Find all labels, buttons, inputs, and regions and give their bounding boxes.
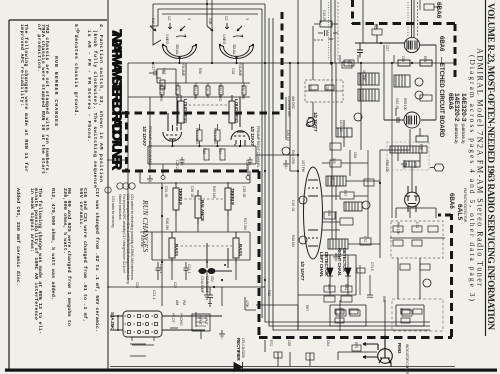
svg-text:C17 was changed from .02 to .1: C17 was changed from .02 to .1 mf, 50V c…: [94, 188, 100, 332]
svg-text:14E320-2 (14E310-2): 14E320-2 (14E310-2): [453, 93, 460, 144]
svg-text:RECTIFIER: RECTIFIER: [236, 338, 241, 361]
svg-text:FM RATIO DETECTOR: FM RATIO DETECTOR: [463, 188, 467, 223]
tiny value labels: [159, 24, 467, 348]
tube V6 6AL5: [405, 186, 420, 212]
svg-text:LOUDNESS: LOUDNESS: [234, 99, 239, 123]
gang dashed link treble: [180, 198, 224, 200]
grid cage sides: [148, 146, 256, 164]
svg-text:C17: C17: [151, 64, 155, 70]
svg-text:C22: C22: [173, 282, 177, 288]
wire left drop 2: [150, 9, 158, 26]
ratio detector dashed net: [391, 221, 443, 258]
svg-text:L6 OSC: L6 OSC: [339, 120, 343, 132]
svg-text:S1A: S1A: [151, 18, 155, 25]
svg-text:INDICATOR CONTROL: INDICATOR CONTROL: [405, 344, 409, 374]
wire audio bus H83: [157, 82, 250, 84]
wire vertical x331: [330, 0, 332, 65]
wire long H155: [256, 154, 298, 156]
board outline fm corner up: [351, 0, 354, 24]
svg-text:Added C91, 330 mmf ceramic dis: Added C91, 330 mmf ceramic disc.: [15, 188, 21, 286]
svg-text:TREBLE: TREBLE: [178, 188, 183, 205]
diode right chan detector: [345, 264, 351, 284]
resistor boxes right top: [274, 29, 438, 360]
svg-text:C28: C28: [231, 68, 235, 74]
circled terminals: [282, 78, 431, 287]
svg-text:improved AFC reliability:: improved AFC reliability:: [19, 24, 25, 106]
wire audio bus H97: [128, 96, 250, 98]
tube V5 6BA6 mid: [384, 112, 436, 128]
board outline audio top: [122, 170, 259, 173]
svg-text:DETECTOR: DETECTOR: [324, 252, 329, 276]
page frame: line left of title bar: [107, 0, 109, 370]
am det inner bits: [335, 309, 422, 323]
svg-text:R57: R57: [343, 190, 347, 196]
svg-text:R6: R6: [161, 70, 165, 74]
board outline short top: [122, 112, 281, 115]
svg-text:C56: C56: [325, 85, 329, 91]
svg-text:R31 470K: R31 470K: [193, 85, 197, 100]
svg-text:105: 105: [332, 158, 336, 164]
svg-text:BALANCE: BALANCE: [200, 200, 205, 221]
cap C62 at tube2: [392, 108, 428, 142]
svg-text:3: 3: [245, 18, 249, 20]
svg-text:R15 50K: R15 50K: [140, 235, 144, 248]
light dashed board inner: [392, 299, 443, 331]
svg-text:PREAMP RIGHT CHANNEL: PREAMP RIGHT CHANNEL: [256, 126, 260, 168]
coil L3: [344, 202, 362, 211]
svg-text:C60: C60: [401, 56, 405, 62]
svg-text:L8: L8: [331, 176, 335, 180]
heavy dashed etched board outlines: [122, 0, 455, 338]
hexagon terminal H: [430, 164, 444, 171]
svg-text:C34 .05: C34 .05: [164, 186, 168, 197]
svg-text:C72: C72: [363, 236, 367, 242]
svg-text:(knob fully clockwise). The sw: (knob fully clockwise). The switching se…: [92, 30, 98, 188]
wire bus vertical B3: [269, 18, 430, 326]
note run 11: [19, 24, 29, 172]
contact labels top: [151, 16, 249, 25]
c17 box left: [149, 69, 176, 95]
tone label row: [164, 186, 247, 230]
diode left chan detector: [327, 264, 333, 284]
svg-text:1 MEG: 1 MEG: [222, 34, 226, 45]
detector load resistors: [324, 265, 373, 302]
svg-text:5. denotes chassis ground.: 5. denotes chassis ground.: [73, 24, 79, 116]
board outline bottom: [259, 336, 452, 339]
svg-text:R67: R67: [305, 305, 309, 311]
svg-text:R44: R44: [347, 60, 351, 66]
svg-text:R55 100: R55 100: [403, 98, 407, 110]
wire center drop: [211, 0, 213, 63]
AM converter dashed module: [305, 80, 343, 102]
svg-text:R38 1MEG: R38 1MEG: [218, 85, 222, 102]
svg-text:R16 2M: R16 2M: [165, 218, 169, 230]
svg-text:AM OSC: AM OSC: [291, 96, 295, 110]
board outline fm right: [454, 24, 457, 80]
wire left drop 1: [153, 4, 161, 45]
wire long H164: [148, 163, 256, 165]
svg-text:AM: AM: [175, 300, 179, 305]
svg-text:FM: FM: [182, 300, 186, 305]
svg-text:R64 15K: R64 15K: [396, 222, 400, 235]
gang dashed link loudness: [184, 104, 229, 106]
svg-text:R40 1M: R40 1M: [212, 186, 216, 198]
svg-text:C3: C3: [224, 16, 228, 20]
title bar 7N2A FM-AM STEREO RADIO TUNER: [110, 29, 125, 171]
circled note a: [117, 183, 135, 189]
svg-text:C20: C20: [135, 282, 139, 288]
note 4 function switch: [86, 24, 104, 188]
volume pot right R2: [207, 23, 254, 63]
svg-text:C15 25: C15 25: [322, 10, 326, 21]
note run 12: [29, 188, 43, 334]
svg-text:C71: C71: [415, 222, 419, 228]
board outline jog: [438, 214, 451, 217]
svg-text:R60: R60: [327, 284, 331, 290]
svg-text:C49 .01: C49 .01: [291, 200, 295, 211]
wire vertical x335: [334, 0, 336, 63]
treble pot right: [225, 182, 231, 216]
svg-text:in weak signal areas:: in weak signal areas:: [29, 188, 35, 252]
svg-text:RUN NUMBER CHANGES: RUN NUMBER CHANGES: [53, 56, 59, 126]
tube V2 1/2 12AX7 right: [231, 97, 250, 146]
svg-text:1/2 12AT7: 1/2 12AT7: [313, 112, 318, 132]
transistor Q1 R593: [363, 335, 392, 367]
svg-text:R12, 470,000 ohms, ½ watt was: R12, 470,000 ohms, ½ watt was added.: [50, 188, 56, 300]
svg-text:LEFT CHAN.: LEFT CHAN.: [319, 252, 324, 277]
svg-text:R38 1MEG: R38 1MEG: [213, 128, 217, 145]
svg-text:(Diagram across pages 4 and 5,: (Diagram across pages 4 and 5, other dat…: [468, 55, 477, 302]
svg-text:50V ceramic.: 50V ceramic.: [78, 188, 84, 228]
svg-text:R30: R30: [198, 68, 202, 74]
svg-text:C74 5: C74 5: [370, 262, 374, 271]
loudness pot left: [174, 95, 184, 130]
svg-text:S3A 25K: S3A 25K: [110, 312, 115, 330]
svg-text:INPUT: INPUT: [204, 315, 208, 326]
junction dots extra: [152, 42, 393, 288]
svg-text:R34: R34: [218, 148, 222, 154]
svg-text:R72: R72: [269, 340, 273, 346]
svg-text:R33: R33: [202, 148, 206, 154]
svg-text:VOLUME R-23, MOST-OFTEN-NEEDED: VOLUME R-23, MOST-OFTEN-NEEDED 1963 RADI…: [485, 3, 495, 330]
middle vertical wires: [269, 0, 436, 335]
circled part note: [105, 187, 111, 193]
svg-text:of production.: of production.: [36, 24, 42, 72]
svg-text:1/2 12AX7: 1/2 12AX7: [250, 126, 255, 147]
page frame: left border line: [8, 20, 10, 370]
svg-text:R61: R61: [344, 284, 348, 290]
svg-text:6BA6: 6BA6: [447, 93, 454, 110]
wire grid line H146: [148, 145, 256, 147]
svg-text:10.7MC: 10.7MC: [362, 70, 366, 82]
resistor row under bus: [160, 83, 246, 98]
ground symbols: [147, 160, 407, 338]
board outline fm top: [352, 22, 455, 25]
svg-text:C84: C84: [326, 340, 330, 346]
svg-text:VOLUME: VOLUME: [181, 62, 185, 77]
svg-text:C40 10: C40 10: [286, 130, 290, 141]
svg-text:1 MEG: 1 MEG: [165, 34, 169, 45]
wire top bus 3: [162, 13, 258, 15]
note R6 R9 R25: [62, 188, 72, 326]
svg-text:R46 470K: R46 470K: [291, 150, 295, 165]
svg-text:BASS: BASS: [238, 244, 243, 256]
svg-text:VOLUME: VOLUME: [238, 62, 242, 77]
coil L2: [328, 239, 348, 249]
svg-text:Start of production.: Start of production.: [118, 194, 122, 221]
svg-text:470K: 470K: [245, 300, 249, 308]
resistor R31 R38 grid: [161, 124, 253, 180]
svg-text:DETECTOR: DETECTOR: [342, 248, 347, 272]
board outline left vertical: [125, 111, 128, 170]
wire bus vertical B1: [265, 4, 430, 322]
svg-text:C26 .02: C26 .02: [205, 85, 209, 96]
svg-text:220,000 ohms, ½ watt.: 220,000 ohms, ½ watt.: [62, 188, 68, 254]
svg-text:1/2 12AX7: 1/2 12AX7: [142, 126, 147, 147]
bass pot right: [233, 232, 239, 264]
svg-text:6BA6: 6BA6: [448, 193, 455, 209]
svg-text:6AL5: 6AL5: [456, 204, 463, 220]
wire vertical x298: [297, 0, 299, 330]
svg-text:3DUAL: 3DUAL: [232, 44, 236, 55]
components on line H63 right: [340, 55, 432, 66]
svg-text:14E320-3 (14E310-3): 14E320-3 (14E310-3): [460, 93, 467, 144]
svg-text:C91 added for eliminating poss: C91 added for eliminating possibility of…: [130, 194, 134, 280]
balance pot: [195, 190, 201, 224]
board outline am vertical: [281, 12, 284, 110]
shielded pair dotted: [328, 2, 330, 60]
ratio det transformer T4: [390, 146, 427, 192]
loudness pot right: [225, 95, 235, 130]
svg-text:C85: C85: [287, 340, 291, 346]
wire tone left vertical: [161, 183, 163, 306]
phono eq box: [192, 314, 210, 339]
svg-text:C36 .05: C36 .05: [190, 186, 194, 197]
svg-text:INPUT: INPUT: [198, 315, 202, 326]
coil L1: [326, 176, 346, 186]
wire bus vertical B2: [261, 9, 263, 318]
right rule line: [485, 0, 487, 336]
caps row mid: [0, 0, 1, 1]
cluster mid coils: [336, 120, 352, 147]
jack block J1: [198, 243, 232, 274]
svg-text:PILOT: PILOT: [171, 313, 175, 323]
svg-text:R75: R75: [354, 342, 358, 348]
volume pot left R1: [150, 23, 197, 63]
svg-text:C35 .05: C35 .05: [242, 186, 246, 197]
wire audio verticals: [107, 63, 455, 367]
function switch S3: [110, 311, 222, 345]
svg-text:S1B: S1B: [208, 18, 212, 25]
coil loopstick: [306, 118, 313, 127]
wires right lower: [245, 238, 445, 366]
svg-text:C33 220: C33 220: [245, 160, 249, 172]
svg-text:R12: R12: [267, 290, 271, 296]
svg-text:C66: C66: [353, 152, 357, 158]
svg-text:R36 470K: R36 470K: [241, 85, 245, 100]
svg-text:C2: C2: [167, 16, 171, 20]
svg-text:25V: 25V: [210, 276, 214, 283]
note run numbers: [36, 24, 50, 174]
board outline audio right: [258, 171, 261, 336]
tube V4 6BA6 top: [355, 24, 436, 58]
svg-text:C91 adds for servicing: C91 adds for servicing: [111, 196, 115, 228]
wire bus vertical B4: [273, 18, 430, 330]
svg-text:7N2A FM-AM STEREO RADIO TUNER: 7N2A FM-AM STEREO RADIO TUNER: [110, 29, 125, 171]
svg-text:C21 .1: C21 .1: [152, 290, 156, 300]
board outline right lower: [450, 214, 453, 337]
svg-text:R17 2M: R17 2M: [243, 218, 247, 230]
svg-text:C68: C68: [327, 210, 331, 216]
svg-text:C29 220: C29 220: [175, 160, 179, 172]
gang dashed link bass: [176, 245, 232, 247]
note C16 C21: [78, 188, 88, 322]
svg-text:R50: R50: [308, 85, 312, 91]
wire top bus 1: [153, 3, 265, 5]
svg-text:For improved AFC reliability C: For improved AFC reliability C17 changed…: [122, 194, 126, 273]
IF transformer T2: [394, 75, 410, 87]
svg-text:R52: R52: [373, 24, 377, 30]
wire top bus 2: [158, 8, 262, 10]
tube V3 12AT7 oval: [304, 167, 323, 259]
rectifier CR4: [234, 362, 243, 372]
svg-text:LOUDNESS: LOUDNESS: [183, 99, 188, 123]
svg-text:TREBLE: TREBLE: [230, 188, 235, 205]
tube V1 1/2 12AX7 left: [163, 97, 182, 145]
bass pot left: [169, 232, 175, 264]
svg-text:C62 .01: C62 .01: [395, 98, 399, 109]
svg-text:C21 .1: C21 .1: [187, 264, 191, 274]
svg-text:C16 .1: C16 .1: [159, 264, 163, 274]
cap C15 cluster: [314, 21, 338, 40]
IF transformer T1: [358, 73, 379, 101]
page frame: notes box top line: [9, 19, 107, 21]
svg-text:1/2 12AT7: 1/2 12AT7: [300, 261, 305, 281]
svg-text:3DUAL: 3DUAL: [175, 44, 179, 55]
svg-text:3: 3: [187, 18, 191, 20]
left mid caps: [156, 262, 189, 280]
svg-text:RIGHT CHAN.: RIGHT CHAN.: [337, 248, 342, 276]
svg-text:1ST FM: 1ST FM: [301, 160, 305, 172]
svg-text:R48 1M: R48 1M: [291, 235, 295, 247]
svg-text:PHONO: PHONO: [179, 313, 183, 326]
svg-text:R31 1MEG: R31 1MEG: [195, 128, 199, 145]
svg-text:4. Function switch, S3, shown: 4. Function switch, S3, shown in AM posi…: [98, 24, 104, 182]
cap to ground under rail: [207, 287, 213, 307]
labels sprinkle: [135, 56, 427, 346]
page frame: bottom thick rule: [5, 369, 497, 372]
svg-text:CR-4 1N3256: CR-4 1N3256: [241, 338, 245, 358]
treble pot left: [173, 182, 179, 216]
mid column labels: [291, 150, 305, 247]
svg-text:—ETCHED CIRCUIT BOARD: —ETCHED CIRCUIT BOARD: [438, 57, 444, 138]
svg-text:C57: C57: [385, 45, 389, 51]
svg-text:C24A 50MF: C24A 50MF: [200, 276, 204, 294]
svg-text:R69: R69: [382, 296, 386, 302]
wire antenna drop: [206, 0, 208, 26]
svg-text:CONVERTER: CONVERTER: [287, 96, 291, 117]
svg-text:6BA6: 6BA6: [435, 2, 442, 19]
wire main horizontal H63: [128, 62, 455, 64]
svg-text:R54: R54: [423, 56, 427, 62]
svg-text:R593: R593: [397, 343, 402, 354]
fm if cluster boxes: [322, 63, 392, 245]
svg-text:6BA6: 6BA6: [438, 36, 444, 52]
svg-text:is AM - FM - FM Stereo - Phono: is AM - FM - FM Stereo - Phono.: [86, 30, 92, 142]
pot terminal dots: [162, 44, 254, 59]
